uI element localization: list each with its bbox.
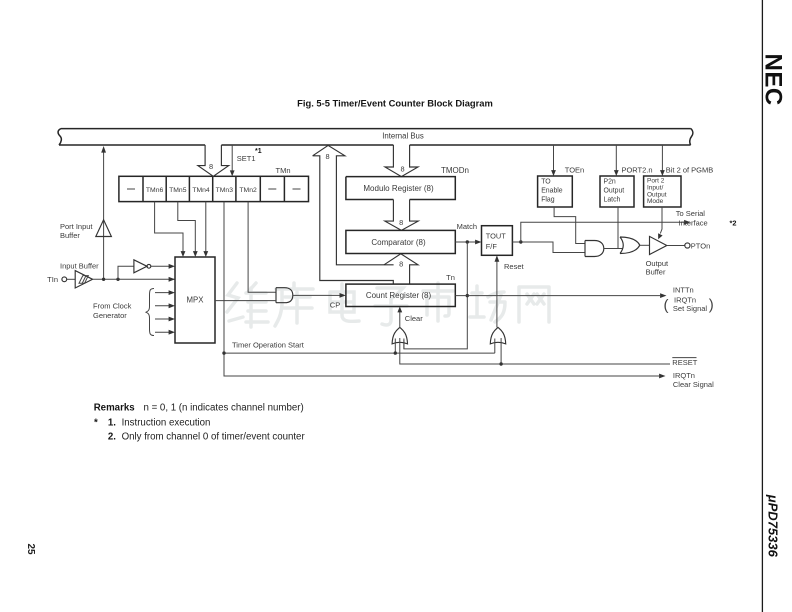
svg-text:*1: *1: [255, 148, 262, 155]
svg-text:2.: 2.: [108, 432, 116, 443]
svg-text:Comparator (8): Comparator (8): [371, 238, 426, 247]
svg-text:TMn3: TMn3: [216, 187, 234, 194]
svg-text:25: 25: [25, 544, 36, 556]
svg-text:Instruction execution: Instruction execution: [122, 417, 211, 428]
svg-text:From Clock: From Clock: [93, 302, 132, 311]
svg-text:Buffer: Buffer: [60, 231, 80, 240]
svg-text:8: 8: [325, 152, 329, 161]
svg-text:Interface: Interface: [679, 218, 708, 227]
svg-text:Clear Signal: Clear Signal: [673, 380, 714, 389]
svg-text:Internal Bus: Internal Bus: [382, 131, 424, 140]
svg-text:Set Signal: Set Signal: [673, 304, 708, 313]
svg-text:8: 8: [209, 162, 213, 171]
svg-text:Count Register (8): Count Register (8): [366, 291, 432, 300]
svg-text:RESET: RESET: [672, 358, 697, 367]
svg-text:TIn: TIn: [47, 275, 58, 284]
svg-text:Enable: Enable: [541, 187, 563, 194]
svg-text:Tn: Tn: [446, 273, 455, 282]
svg-text:n = 0, 1 (n indicates channel: n = 0, 1 (n indicates channel number): [144, 403, 304, 414]
svg-text:Modulo Register (8): Modulo Register (8): [363, 184, 434, 193]
svg-text:Only from channel 0 of timer/e: Only from channel 0 of timer/event count…: [122, 432, 306, 443]
svg-text:PORT2.n: PORT2.n: [621, 166, 652, 175]
svg-text:SET1: SET1: [237, 154, 256, 163]
svg-text:CP: CP: [330, 301, 340, 310]
svg-text:Port Input: Port Input: [60, 222, 93, 231]
svg-text:TO: TO: [541, 178, 551, 185]
svg-text:Flag: Flag: [541, 196, 555, 203]
svg-text:TMn4: TMn4: [192, 187, 210, 194]
svg-text:8: 8: [399, 218, 403, 227]
svg-text:Clear: Clear: [405, 314, 423, 323]
svg-text:Bit 2 of PGMB: Bit 2 of PGMB: [666, 166, 714, 175]
svg-text:NEC: NEC: [760, 54, 787, 106]
svg-text:Latch: Latch: [604, 196, 621, 203]
svg-text:IRQTn: IRQTn: [673, 371, 695, 380]
svg-text:*2: *2: [730, 219, 737, 228]
svg-text:TOUT: TOUT: [486, 231, 506, 240]
svg-text:TMODn: TMODn: [441, 166, 469, 175]
svg-text:PTOn: PTOn: [691, 242, 710, 251]
svg-text:*: *: [94, 417, 98, 428]
svg-text:Output: Output: [604, 187, 625, 194]
svg-text:Fig. 5-5 Timer/Event Counter: Fig. 5-5 Timer/Event Counter Block Diagr…: [297, 98, 493, 109]
svg-text:TMn2: TMn2: [239, 187, 257, 194]
svg-text:INTTn: INTTn: [673, 286, 694, 295]
svg-text:F/F: F/F: [486, 242, 498, 251]
svg-text:): ): [709, 297, 714, 314]
svg-text:TOEn: TOEn: [565, 166, 584, 175]
svg-text:1.: 1.: [108, 417, 116, 428]
svg-text:TMn6: TMn6: [146, 187, 164, 194]
svg-text:Buffer: Buffer: [646, 268, 666, 277]
svg-text:Input Buffer: Input Buffer: [60, 262, 99, 271]
svg-text:(: (: [664, 297, 669, 314]
svg-text:Output: Output: [646, 259, 669, 268]
svg-text:μPD75336: μPD75336: [766, 494, 781, 558]
svg-text:Mode: Mode: [647, 198, 664, 205]
svg-text:Remarks: Remarks: [94, 403, 135, 414]
svg-text:8: 8: [399, 260, 403, 269]
svg-text:To Serial: To Serial: [676, 209, 706, 218]
svg-text:Timer Operation Start: Timer Operation Start: [232, 341, 305, 350]
svg-text:TMn: TMn: [276, 166, 291, 175]
svg-text:Reset: Reset: [504, 262, 525, 271]
svg-text:MPX: MPX: [187, 296, 205, 305]
svg-text:Match: Match: [457, 222, 477, 231]
svg-text:TMn5: TMn5: [169, 187, 187, 194]
svg-text:Generator: Generator: [93, 311, 127, 320]
svg-text:8: 8: [401, 165, 405, 174]
svg-text:P2n: P2n: [604, 178, 616, 185]
